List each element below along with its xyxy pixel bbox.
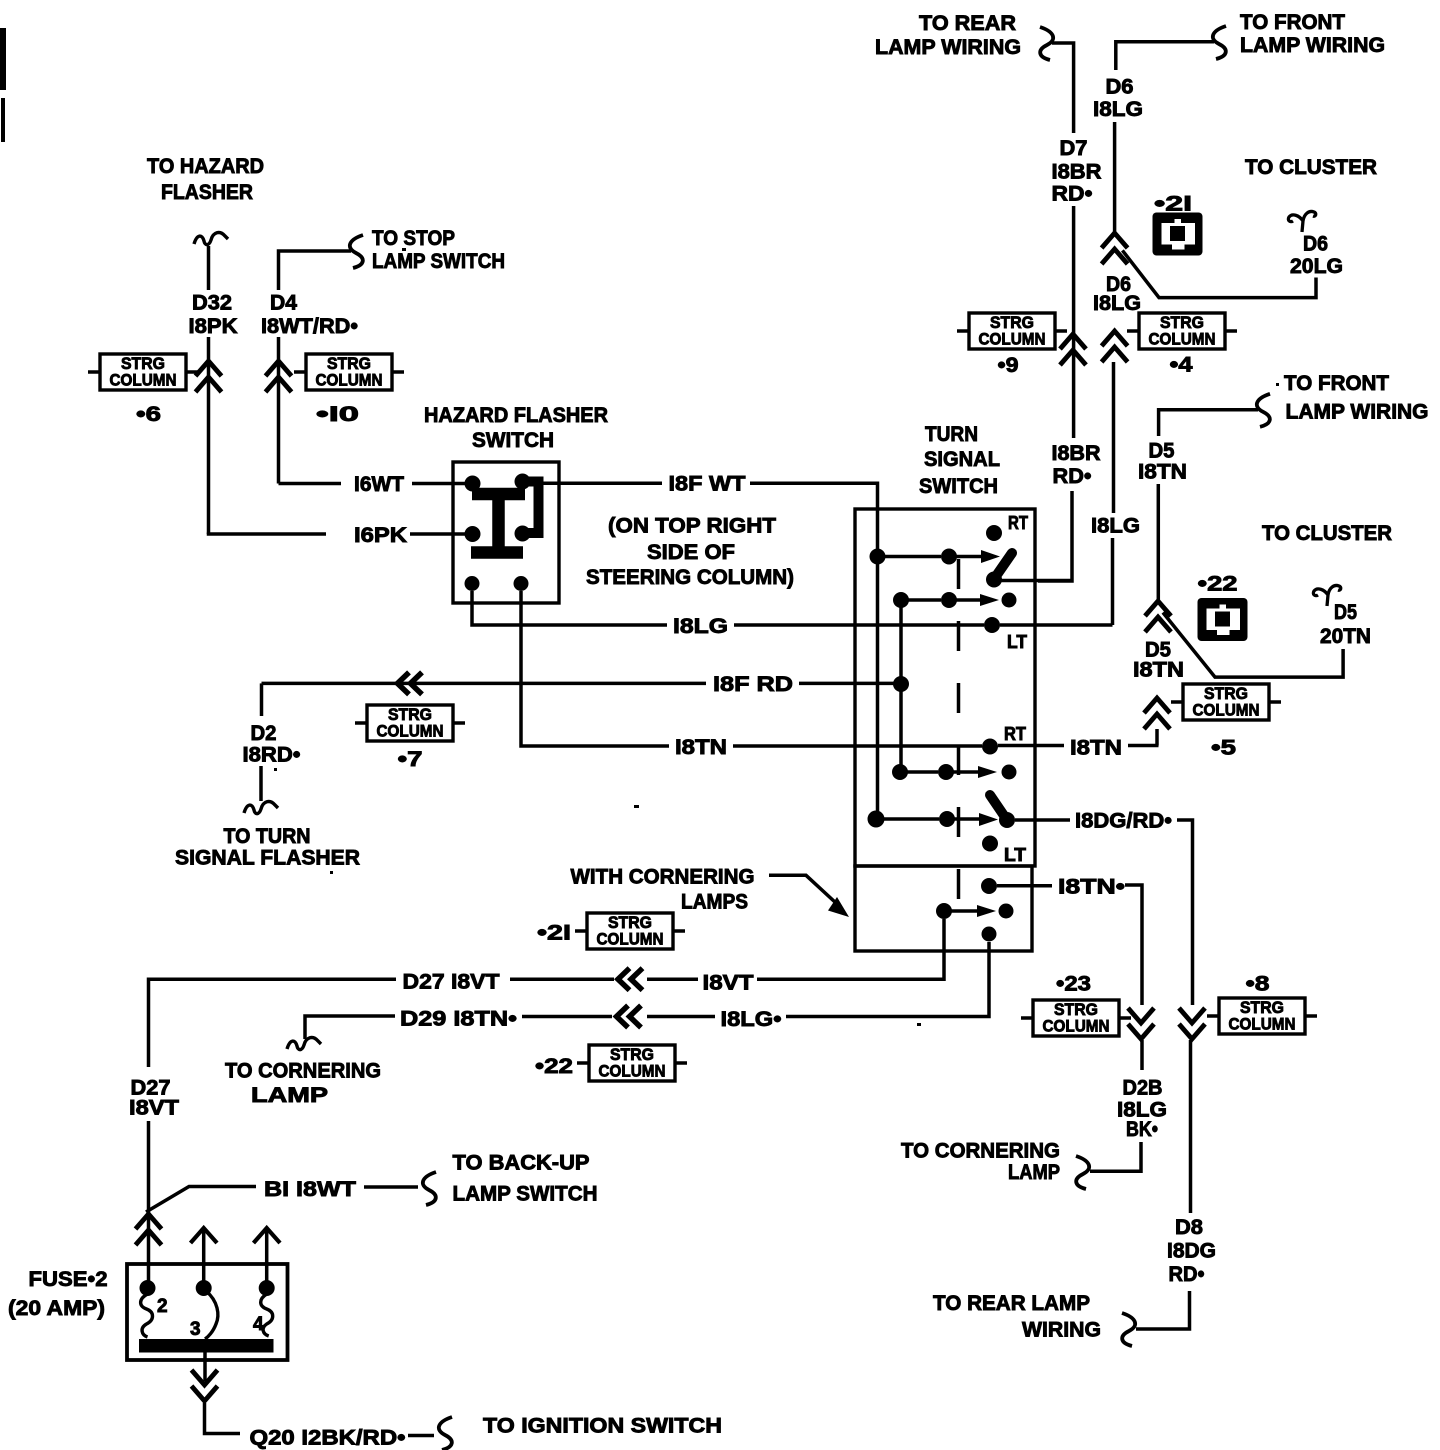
svg-text:RT: RT (1004, 724, 1026, 744)
label D6 18LG (top) (1093, 76, 1143, 122)
wire B1 to back-up lamp switch (364, 1185, 418, 1189)
wire 16WT to switch pin (412, 482, 465, 486)
wire row J to contact arrow (944, 909, 978, 913)
contact arrow row J (977, 905, 996, 917)
junction row B center (941, 592, 957, 608)
svg-text:LT: LT (1004, 845, 1026, 865)
LT upper pin (18LG) (984, 617, 1000, 633)
label D6 20LG (1290, 233, 1343, 278)
wire row B left vertical (899, 600, 903, 772)
svg-text:•6: •6 (136, 403, 161, 426)
hazard switch pin bottom-right (514, 576, 529, 591)
wire 18TN to D5 riser (1128, 744, 1159, 748)
wire 16PK segment (209, 533, 327, 535)
steering column bulkhead STRG COLUMN #23 (1021, 1000, 1131, 1036)
svg-text:TO REAR LAMP: TO REAR LAMP (933, 1292, 1090, 1315)
wire 16PK to switch pin (410, 532, 465, 536)
fuse pin 2 dot (140, 1280, 156, 1296)
contact dot row B (1002, 593, 1017, 608)
contact dot row F (1002, 765, 1017, 780)
wire 18VT from cornering row J down (757, 919, 944, 979)
wire D7 from rear lamp wiring (1052, 43, 1074, 133)
svg-text:(ON TOP RIGHT: (ON TOP RIGHT (608, 515, 776, 538)
svg-text:I8LG: I8LG (673, 615, 728, 638)
label D27 18VT (riser) (129, 1076, 179, 1119)
label TURN SIGNAL SWITCH (919, 423, 1000, 498)
svg-text:•23: •23 (1056, 973, 1091, 996)
svg-text:TURN: TURN (925, 423, 978, 446)
cluster pigtail squiggle (upper) (1288, 211, 1315, 232)
steering column bulkhead STRG COLUMN #7 (355, 705, 465, 741)
connector chevron on D4 wire (266, 361, 292, 392)
svg-text:•5: •5 (1211, 737, 1236, 760)
svg-text:Q20 I2BK/RD•: Q20 I2BK/RD• (250, 1427, 406, 1450)
hazard switch pin mid-left (465, 526, 481, 542)
svg-text:3: 3 (190, 1319, 201, 1340)
label D2 18RD* (243, 722, 301, 767)
steering column bulkhead STRG COLUMN #9 (957, 313, 1067, 349)
note (ON TOP RIGHT SIDE OF STEERING COLUMN) (586, 515, 794, 590)
contact arrow row G (979, 813, 998, 826)
off-page connector: TO CORNERING LAMP (right) (901, 1140, 1089, 1190)
svg-text:HAZARD FLASHER: HAZARD FLASHER (424, 404, 608, 427)
svg-text:•7: •7 (398, 748, 423, 771)
svg-text:TO CLUSTER: TO CLUSTER (1262, 522, 1392, 545)
wire 18F WT from hazard switch (530, 481, 662, 485)
wire 18DG/RD* out of switch (1015, 818, 1070, 822)
connector chevron on D5 wire (upper) (1145, 601, 1171, 632)
svg-text:SIGNAL FLASHER: SIGNAL FLASHER (175, 847, 360, 870)
label D4 18WT/RD* (261, 292, 358, 339)
svg-text:I6PK: I6PK (354, 524, 407, 547)
wire D5 20TN branch to cluster (1163, 613, 1343, 678)
wire 18LG into turn signal switch (734, 623, 984, 627)
wire D2B to cornering lamp (1090, 1142, 1141, 1171)
wire D27 horizontal to left riser (149, 979, 397, 1067)
connector chevron on cornering 18TN riser (1128, 1008, 1154, 1039)
wire fuse pin 3 feed arrow (191, 1228, 218, 1282)
RT lower pin (18TN) (982, 739, 998, 755)
off-page connector: TO REAR LAMP WIRING (top) (875, 12, 1053, 60)
svg-text:I8WT/RD•: I8WT/RD• (261, 315, 358, 338)
svg-text:2: 2 (157, 1296, 168, 1317)
svg-text:I8LG•: I8LG• (721, 1008, 782, 1031)
wire D29 to cornering lamp (305, 1016, 395, 1039)
svg-text:TO REAR: TO REAR (919, 12, 1016, 35)
fuse element 2 (141, 1294, 153, 1337)
wire D7 middle segment (1072, 206, 1076, 438)
svg-text:(20 AMP): (20 AMP) (8, 1297, 105, 1320)
contact arrow row A (981, 550, 1000, 563)
wire D32 lower segment (207, 337, 211, 534)
steering column bulkhead STRG COLUMN #21 (575, 913, 685, 949)
junction row G on 18F WT vertical (868, 811, 885, 828)
wire row A to wiper (878, 555, 942, 559)
off-page connector: TO CORNERING LAMP (left) (225, 1038, 381, 1107)
label D5 18TN (upper) (1138, 439, 1187, 483)
svg-text:I8TN: I8TN (675, 736, 727, 759)
svg-text:TO CORNERING: TO CORNERING (225, 1060, 381, 1083)
svg-text:I6WT: I6WT (354, 473, 404, 496)
off-page connector: TO TURN SIGNAL FLASHER (175, 802, 360, 870)
cluster connector icon #21 (1153, 213, 1203, 256)
wire 18F RD horizontal (262, 682, 707, 686)
svg-text:BI I8WT: BI I8WT (264, 1178, 356, 1201)
connector chevron on D6 wire (lower) (1102, 331, 1128, 362)
hazard switch right bracket contact (519, 482, 539, 534)
svg-text:D4: D4 (270, 292, 297, 315)
connector chevron on D5 wire (lower) (1144, 698, 1170, 729)
svg-text:D6: D6 (1303, 233, 1328, 256)
pointer arrow from WITH CORNERING LAMPS (769, 875, 849, 917)
svg-text:I8TN•: I8TN• (1058, 875, 1125, 898)
wire 18F WT to turn signal switch (750, 483, 878, 819)
svg-text:TO FRONT: TO FRONT (1240, 11, 1345, 34)
turn signal switch RT upper pin (986, 525, 1002, 541)
svg-text:D5: D5 (1334, 601, 1357, 624)
wire from row A lever to 18BR RD* (1001, 579, 1072, 583)
wire 18LG* from cornering bottom pin (786, 942, 989, 1017)
wire 18VT middle segment (647, 977, 698, 981)
svg-text:I8F WT: I8F WT (669, 473, 746, 496)
label D8 18DG RD* (1167, 1216, 1216, 1286)
svg-text:LT: LT (1007, 632, 1027, 652)
junction cornering row J (936, 903, 952, 919)
svg-text:D27 I8VT: D27 I8VT (403, 971, 500, 994)
svg-text:•8: •8 (1246, 973, 1270, 996)
svg-text:RD•: RD• (1169, 1263, 1205, 1286)
svg-text:I8TN: I8TN (1133, 659, 1184, 682)
connector chevron on D27 riser (136, 1214, 162, 1245)
wire cornering 18TN to riser (1125, 885, 1142, 1005)
wire fuse pin 4 feed arrow (254, 1228, 281, 1282)
wire D4 lower segment (277, 337, 281, 484)
wire 18TN out of switch (998, 744, 1064, 748)
fuse element 4 (261, 1294, 273, 1336)
hazard switch pin top-left (465, 476, 481, 492)
dashed center line of turn signal switch (957, 559, 961, 908)
contact dot row J (999, 904, 1014, 919)
hazard switch pin mid-right (515, 526, 531, 542)
junction on 18F WT vertical row A (870, 549, 886, 565)
svg-text:LAMP WIRING: LAMP WIRING (1240, 34, 1385, 57)
junction row B left (893, 592, 909, 608)
connector chevron on 18VT wire (618, 968, 643, 990)
label FUSE#2 (20 AMP) (8, 1268, 108, 1320)
junction row F left (892, 764, 908, 780)
svg-text:I8DG/RD•: I8DG/RD• (1075, 810, 1172, 833)
label D5 20TN (1320, 601, 1371, 648)
svg-text:D2: D2 (251, 722, 277, 745)
wire D29 left segment (522, 1015, 612, 1019)
svg-text:WIRING: WIRING (1022, 1319, 1101, 1342)
wire D8 upper segment (1189, 1040, 1193, 1213)
off-page connector: TO BACK-UP LAMP SWITCH (423, 1152, 598, 1206)
svg-text:TO CLUSTER: TO CLUSTER (1245, 156, 1377, 179)
svg-text:TO TURN: TO TURN (224, 825, 311, 848)
connector chevron on D7 wire (1060, 334, 1086, 365)
svg-text:SIGNAL: SIGNAL (924, 448, 1000, 471)
svg-text:I8TN: I8TN (1138, 461, 1187, 484)
hazard switch pin top-right (515, 474, 531, 490)
svg-text:LAMP SWITCH: LAMP SWITCH (453, 1183, 598, 1206)
wire 18TN into turn signal switch (733, 744, 982, 748)
off-page connector: TO IGNITION SWITCH (439, 1415, 722, 1450)
off-page connector: TO STOP LAMP SWITCH (350, 227, 505, 273)
wire row B to center (901, 598, 941, 602)
svg-text:RD•: RD• (1052, 183, 1093, 206)
steering column bulkhead STRG COLUMN #5 (1171, 684, 1281, 720)
contact arrow row B (980, 594, 999, 606)
svg-text:I8VT: I8VT (129, 1097, 179, 1120)
wire D5 from front lamp wiring (1159, 410, 1258, 436)
cluster connector icon #22 (1198, 598, 1248, 641)
label D5 18TN (lower) (1133, 639, 1184, 682)
switch lever row G (LT engaged) (990, 795, 1007, 820)
turn signal switch main box (855, 509, 1035, 866)
svg-text:LAMP WIRING: LAMP WIRING (1286, 401, 1429, 424)
svg-text:•22: •22 (1198, 573, 1238, 596)
wire 18VT left segment (510, 977, 614, 981)
svg-text:SWITCH: SWITCH (919, 475, 998, 498)
junction row A center (941, 549, 957, 565)
svg-text:TO FRONT: TO FRONT (1284, 372, 1389, 395)
turn signal switch cornering lamp section box (855, 866, 1032, 951)
svg-text:TO HAZARD: TO HAZARD (147, 155, 264, 178)
svg-text:I8TN: I8TN (1070, 737, 1122, 760)
hazard switch pin bottom-left (465, 576, 480, 591)
svg-text:I8BR: I8BR (1052, 442, 1101, 465)
cornering section bottom pin (982, 927, 997, 942)
svg-text:I8DG: I8DG (1167, 1239, 1216, 1262)
label D7 18BR RD* (1052, 137, 1102, 206)
wire 18F RD into turn signal switch (799, 682, 894, 686)
svg-text:I8LG: I8LG (1093, 292, 1141, 315)
svg-text:WITH CORNERING: WITH CORNERING (571, 866, 755, 889)
svg-text:D7: D7 (1060, 137, 1088, 160)
wire row A to contact arrow (949, 555, 982, 559)
lever pivot dot row A (986, 572, 1002, 588)
wire D6 20LG branch to cluster (1122, 250, 1316, 297)
svg-text:I8BR: I8BR (1052, 161, 1102, 184)
LT lower pin (982, 836, 998, 852)
svg-text:•2I: •2I (537, 922, 571, 945)
cluster pigtail squiggle (lower) (1313, 585, 1340, 606)
wire 18TN from hazard switch bottom-right pin (521, 591, 669, 746)
wire 18DG/RD* to riser (1177, 820, 1193, 1005)
connector chevron on 18F RD wire (398, 672, 423, 694)
junction 18F RD row D (893, 676, 909, 692)
off-page connector: TO REAR LAMP WIRING (bottom) (933, 1292, 1135, 1346)
connector chevron on D32 wire (196, 361, 222, 392)
wire 18LG from hazard switch bottom-left pin (472, 591, 667, 625)
hazard switch contact bar (I-beam) (471, 494, 525, 553)
wire D7 to turn signal switch RT feed (1038, 491, 1072, 581)
lever pivot dot row G (999, 812, 1015, 828)
wire cornering 18TN out (997, 884, 1052, 888)
svg-text:D29 I8TN•: D29 I8TN• (400, 1008, 517, 1031)
svg-text:RT: RT (1008, 513, 1028, 533)
wire D4 from stop lamp switch (279, 251, 352, 290)
svg-text:LAMP WIRING: LAMP WIRING (875, 36, 1021, 59)
cornering section top pin (981, 878, 997, 894)
label 18BR RD* lower (1052, 442, 1101, 488)
svg-text:20TN: 20TN (1320, 625, 1371, 648)
label D32 18PK (189, 292, 238, 339)
svg-text:I8PK: I8PK (189, 315, 238, 338)
wire D27 riser to fuse (147, 1121, 151, 1284)
wire D32 vertical to hazard flasher (207, 246, 211, 290)
off-page connector: TO FRONT LAMP WIRING (middle) (1257, 372, 1429, 427)
wire D2B upper segment (1140, 1040, 1144, 1070)
svg-text:4: 4 (253, 1314, 264, 1335)
wire row B to contact arrow (949, 598, 981, 602)
svg-text:D6: D6 (1106, 76, 1134, 99)
svg-text:TO IGNITION SWITCH: TO IGNITION SWITCH (483, 1415, 722, 1438)
svg-text:LAMP: LAMP (251, 1084, 328, 1107)
wire 16WT segment (279, 482, 342, 486)
wire D6 upper segment (1113, 122, 1117, 232)
wire Q20 to ignition switch (408, 1434, 434, 1438)
svg-text:•22: •22 (535, 1055, 573, 1078)
wire D2 lower segment (259, 766, 263, 801)
svg-text:SIDE OF: SIDE OF (647, 541, 735, 564)
fuse bus bar (139, 1339, 274, 1353)
svg-text:D5: D5 (1149, 439, 1175, 462)
label WITH CORNERING LAMPS (571, 866, 755, 914)
svg-text:D32: D32 (192, 292, 232, 315)
steering column bulkhead STRG COLUMN #22 (577, 1045, 687, 1081)
wire Q20 lower segment (205, 1403, 241, 1434)
svg-text:I8VT: I8VT (703, 972, 754, 995)
svg-text:STEERING COLUMN): STEERING COLUMN) (586, 566, 794, 589)
svg-text:I8F RD: I8F RD (713, 673, 793, 696)
fuse pin 4 dot (259, 1280, 275, 1296)
svg-text:TO STOP: TO STOP (372, 227, 455, 250)
svg-text:I8RD•: I8RD• (243, 744, 301, 767)
connector chevron on D6 wire (upper) (1102, 233, 1128, 264)
svg-text:I8LG: I8LG (1091, 515, 1140, 538)
svg-text:•9: •9 (998, 354, 1019, 377)
switch lever row A (RT engaged) (994, 553, 1012, 579)
connector chevron on 18LG* wire (617, 1006, 642, 1028)
steering column bulkhead STRG COLUMN #6 (88, 354, 198, 390)
svg-text:FLASHER: FLASHER (161, 181, 253, 204)
hazard flasher switch box (453, 462, 559, 603)
steering column bulkhead STRG COLUMN #10 (294, 354, 404, 390)
fuse pin 3 dot (196, 1280, 212, 1296)
svg-text:TO BACK-UP: TO BACK-UP (453, 1152, 590, 1175)
junction row G center (939, 811, 955, 827)
fuse element 3 (205, 1291, 218, 1339)
off-page connector: TO HAZARD FLASHER (147, 155, 264, 245)
svg-text:•2I: •2I (1154, 193, 1192, 216)
fuse block box (127, 1264, 288, 1360)
svg-text:TO CORNERING: TO CORNERING (901, 1140, 1060, 1163)
wire D6 riser to switch 18LG (1111, 538, 1115, 625)
steering column bulkhead STRG COLUMN #8 (1207, 998, 1317, 1034)
wire 18LG* middle segment (647, 1015, 715, 1019)
wire D5 to 18TN (1155, 729, 1159, 746)
wire row F to center (900, 770, 938, 774)
wire D6 lower segment (1112, 362, 1116, 513)
contact arrow row F (978, 766, 997, 778)
wire fuse output Q20 (203, 1353, 207, 1382)
svg-text:RD•: RD• (1053, 465, 1092, 488)
svg-text:D8: D8 (1175, 1216, 1203, 1239)
label HAZARD FLASHER SWITCH (424, 404, 608, 452)
svg-text:LAMP: LAMP (1008, 1161, 1060, 1184)
wire D6 from front lamp wiring (1116, 42, 1214, 70)
label D6 18LG (middle) (1093, 273, 1141, 315)
wire row F to contact arrow (946, 770, 979, 774)
wire D8 to rear lamp wiring (1136, 1291, 1190, 1329)
svg-text:D2B: D2B (1123, 1077, 1163, 1100)
wire B1 18WT branch (146, 1187, 256, 1213)
connector chevron on 18DG/RD* riser (1179, 1008, 1205, 1039)
off-page connector: TO FRONT LAMP WIRING (top) (1213, 11, 1385, 59)
wire row G to center (876, 817, 939, 821)
connector chevron on Q20 wire (192, 1370, 218, 1401)
svg-text:I8LG: I8LG (1093, 98, 1143, 121)
svg-text:20LG: 20LG (1290, 255, 1343, 278)
svg-text:LAMP SWITCH: LAMP SWITCH (372, 250, 505, 273)
svg-text:•I0: •I0 (316, 403, 359, 426)
wire 18LG out of switch to D6 riser (1000, 623, 1113, 627)
svg-text:•4: •4 (1170, 354, 1193, 377)
wire row G to contact arrow (947, 817, 980, 821)
wire D2 drop to turn signal flasher (260, 683, 264, 716)
svg-text:LAMPS: LAMPS (681, 891, 748, 914)
svg-text:SWITCH: SWITCH (472, 429, 554, 452)
wire D5 middle segment (1157, 484, 1161, 600)
svg-text:FUSE•2: FUSE•2 (29, 1268, 108, 1291)
junction row F center (938, 764, 954, 780)
label D2B 18LG BK* (1117, 1077, 1167, 1141)
steering column bulkhead STRG COLUMN #4 (1127, 313, 1237, 349)
svg-text:BK•: BK• (1126, 1118, 1158, 1141)
